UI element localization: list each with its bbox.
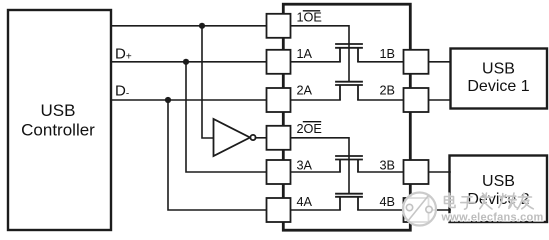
wire 4B to USB Device 2 bbox=[429, 209, 451, 211]
wire: D+ junction down to pin 3A bbox=[186, 62, 267, 172]
label 1A bbox=[297, 47, 313, 61]
svg-text:1A: 1A bbox=[297, 47, 313, 61]
wire D- : controller to pin 2A bbox=[111, 99, 267, 101]
wire Q3 to 3B bbox=[358, 171, 404, 173]
wire: D- junction down to pin 4A bbox=[168, 100, 267, 210]
USB Controller box bbox=[8, 10, 111, 230]
node junction on D+ wire bbox=[183, 59, 189, 65]
label D- bbox=[115, 83, 129, 100]
svg-text:1B: 1B bbox=[380, 47, 396, 61]
gate control line Q3-Q4 bbox=[348, 156, 350, 193]
USB Device 2 box bbox=[450, 156, 548, 223]
wire 3B to USB Device 2 bbox=[429, 171, 451, 173]
wire 1A to Q1 bbox=[291, 61, 341, 63]
label 1OE with overline bbox=[297, 11, 322, 25]
wire 2B to USB Device 1 bbox=[429, 99, 451, 101]
transistor Q3 bbox=[336, 156, 362, 172]
wire 1OE: controller to pin 1OE bbox=[111, 25, 267, 27]
watermark chinese text bbox=[445, 193, 534, 209]
wire: pin 1OE to gate line Q1 bbox=[291, 26, 350, 44]
label 4A bbox=[297, 195, 313, 209]
wire D+ : controller to pin 1A bbox=[111, 61, 267, 63]
wire: inverter output to pin 2OE bbox=[256, 137, 267, 139]
wire 4A to Q4 bbox=[291, 209, 341, 211]
pin 1A bbox=[267, 50, 291, 74]
node junction on D- wire bbox=[165, 97, 171, 103]
svg-text:2A: 2A bbox=[297, 83, 313, 97]
label 3A bbox=[297, 158, 313, 172]
svg-text:www.elecfans.com: www.elecfans.com bbox=[441, 212, 544, 224]
label D+ bbox=[115, 46, 132, 63]
wire: pin 2OE to gate line Q3 bbox=[291, 138, 350, 155]
inverter U1 bbox=[214, 119, 256, 156]
wire 2A to Q2 bbox=[291, 99, 341, 101]
svg-text:Device 1: Device 1 bbox=[467, 78, 529, 95]
wire Q2 to 2B bbox=[358, 99, 404, 101]
svg-text:3A: 3A bbox=[297, 158, 313, 172]
USB Device 1 box bbox=[451, 49, 548, 109]
pin 2A bbox=[267, 88, 291, 112]
watermark url text bbox=[441, 212, 544, 224]
svg-text:3B: 3B bbox=[380, 158, 396, 172]
wire Q1 to 1B bbox=[358, 61, 404, 63]
svg-text:2OE: 2OE bbox=[297, 122, 322, 136]
svg-text:2B: 2B bbox=[380, 83, 396, 97]
node junction on 1OE wire bbox=[199, 23, 205, 29]
svg-text:4B: 4B bbox=[380, 195, 396, 209]
label 3B bbox=[380, 158, 396, 172]
svg-text:USB: USB bbox=[41, 101, 76, 120]
label 2OE with overline bbox=[297, 122, 322, 136]
svg-text:USB: USB bbox=[482, 173, 515, 190]
transistor Q1 bbox=[336, 44, 362, 62]
pin 4B bbox=[404, 198, 429, 222]
label 4B bbox=[380, 195, 396, 209]
pin 1B bbox=[404, 50, 429, 74]
svg-text:4A: 4A bbox=[297, 195, 313, 209]
pin 3B bbox=[404, 160, 429, 184]
pin 4A bbox=[267, 198, 291, 222]
wire 1B to USB Device 1 bbox=[429, 61, 451, 63]
main switch block bbox=[283, 4, 410, 230]
label 2B bbox=[380, 83, 396, 97]
gate control line Q1-Q2 bbox=[348, 44, 350, 81]
transistor Q4 bbox=[336, 194, 362, 211]
pin 2B bbox=[404, 88, 429, 112]
svg-text:USB: USB bbox=[482, 61, 515, 78]
wire Q4 to 4B bbox=[358, 209, 404, 211]
svg-text:1OE: 1OE bbox=[297, 11, 322, 25]
wire 3A to Q3 bbox=[291, 171, 341, 173]
pin 2OE bbox=[267, 126, 291, 150]
wire: 1OE junction down to inverter input bbox=[202, 26, 213, 138]
label 1B bbox=[380, 47, 396, 61]
label 2A bbox=[297, 83, 313, 97]
pin 1OE bbox=[267, 14, 291, 38]
watermark logo elecfans bbox=[403, 193, 436, 226]
svg-text:Controller: Controller bbox=[21, 121, 95, 140]
pin 3A bbox=[267, 160, 291, 184]
transistor Q2 bbox=[336, 82, 362, 101]
